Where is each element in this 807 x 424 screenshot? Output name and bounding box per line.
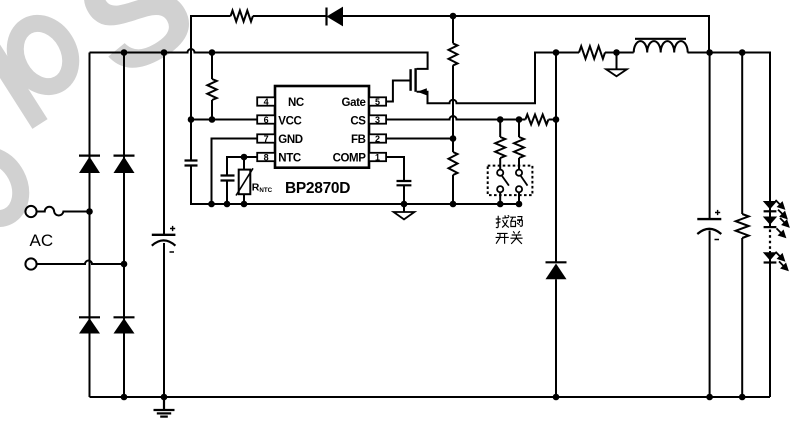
wire freewheeling diode branch x556 [555,53,557,398]
DIP switch dashed box [488,166,533,196]
svg-text:2: 2 [375,134,380,144]
svg-text:8: 8 [264,152,269,162]
AC terminal top [25,206,36,217]
resistor DIP branch 2 [514,137,524,158]
main earth ground [154,397,175,417]
wire FB line [386,138,453,140]
svg-text:RNTC: RNTC [252,181,273,194]
resistor DIP branch 1 [495,137,505,158]
wire COMP branch [386,157,404,204]
label dip switch chinese line1 (拨码) [496,215,523,227]
IC pin labels [278,97,366,164]
bridge diode D3 bottom-left [79,317,100,333]
svg-text:FB: FB [351,134,366,146]
switch SW1 lever [502,176,509,186]
svg-text:7: 7 [264,134,269,144]
LED3 emission arrows [776,252,788,270]
capacitor NTC filter x227 [221,176,235,181]
IC pin numbers [264,97,380,163]
mosfet Q1 source arrow [417,88,427,95]
svg-text:Gate: Gate [342,97,366,109]
wire VCC line [191,119,257,121]
IC pin boxes left [257,97,275,161]
LED2 [763,217,777,228]
freewheeling diode D5 [546,262,567,279]
wire bus capacitor branch x164 [163,53,165,398]
wire resistor branch x212 rail to VCC [211,53,213,120]
wire AC live with fuse F1 [37,207,90,216]
svg-text:AC: AC [30,231,54,250]
IC pin boxes right [369,97,386,161]
bridge diode D1 top-left [79,156,100,173]
capacitor COMP [397,181,412,185]
wire x453 feedback divider branch [452,16,454,204]
wire input DC rail y52.5 with hop over x191 [90,49,428,69]
wire gate pin5 to mosfet [386,81,411,102]
svg-text:4: 4 [264,97,269,107]
svg-text:COMP: COMP [333,152,367,164]
svg-text:6: 6 [264,115,269,125]
resistor switch node line [579,46,605,59]
svg-text:1: 1 [375,152,380,162]
IC U1 BP2870D body [275,86,369,168]
diode on top line pointing left [327,8,343,26]
wire DIP switch branch 2 [518,120,520,205]
label dip switch chinese line2 (开关) [496,231,523,244]
output resistor [736,214,749,238]
output electrolytic capacitor C2 [697,210,721,240]
switch SW2 contacts [516,170,522,193]
wire output resistor branch x742 [741,53,743,398]
inductor core bar [635,38,686,40]
svg-text:3: 3 [375,115,380,125]
thermistor RNTC [236,168,253,195]
wire AC neutral with hop over column1 [37,261,124,265]
wire bridge column 1 [89,53,91,398]
LED2 emission arrows [777,218,789,237]
bridge diode D2 top-right [114,156,135,173]
bridge diode D4 bottom-right [114,317,135,333]
wire GND line pin7 [212,139,258,205]
LED1 [763,201,777,211]
wire output capacitor branch x709.6 [709,53,711,398]
mosfet Q1 gate bar [409,69,411,91]
wire mosfet source to switch node line, hop over x453 [417,53,634,104]
switch SW1 contacts [497,170,503,193]
LED string dotted wire [769,230,771,251]
svg-text:NTC: NTC [278,152,301,164]
svg-text:NC: NC [288,97,304,109]
capacitor on x191 branch [185,161,198,166]
wire NTC line pin8 [227,157,257,204]
svg-text:GND: GND [278,134,302,146]
mosfet Q1 channel bar [414,68,416,92]
resistor x453 lower [449,152,458,175]
svg-text:VCC: VCC [278,115,301,127]
resistor CS line horizontal [525,115,548,125]
wire switch node line after inductor [688,53,771,398]
wire bottom rail [90,396,771,398]
resistor x453 upper [449,43,458,65]
LED1 emission arrows [776,200,787,218]
wire RNTC branch [243,157,245,204]
wire ground stub at 616.5 [616,53,618,70]
signal ground under COMP [394,204,415,219]
resistor on top line [231,11,253,22]
wire DIP switch branch 1 [499,120,501,205]
switch SW2 lever [521,176,528,186]
wire bridge column 2 [123,53,125,398]
svg-text:CS: CS [350,115,366,127]
svg-text:5: 5 [375,97,380,107]
LED3 [763,252,777,262]
signal ground at switch node [606,69,627,76]
watermark BPS [0,14,81,229]
AC terminal bottom [25,258,36,269]
resistor rail to VCC x212 [207,79,216,100]
inductor L1 [634,41,688,52]
wire top auxiliary supply line [191,16,709,161]
wire VCC branch lower with cap gap, ground line y204 [191,166,519,205]
svg-text:BP2870D: BP2870D [285,180,350,197]
bus electrolytic capacitor C1 [152,226,176,252]
wire CS line with hop over x453 [386,116,556,119]
